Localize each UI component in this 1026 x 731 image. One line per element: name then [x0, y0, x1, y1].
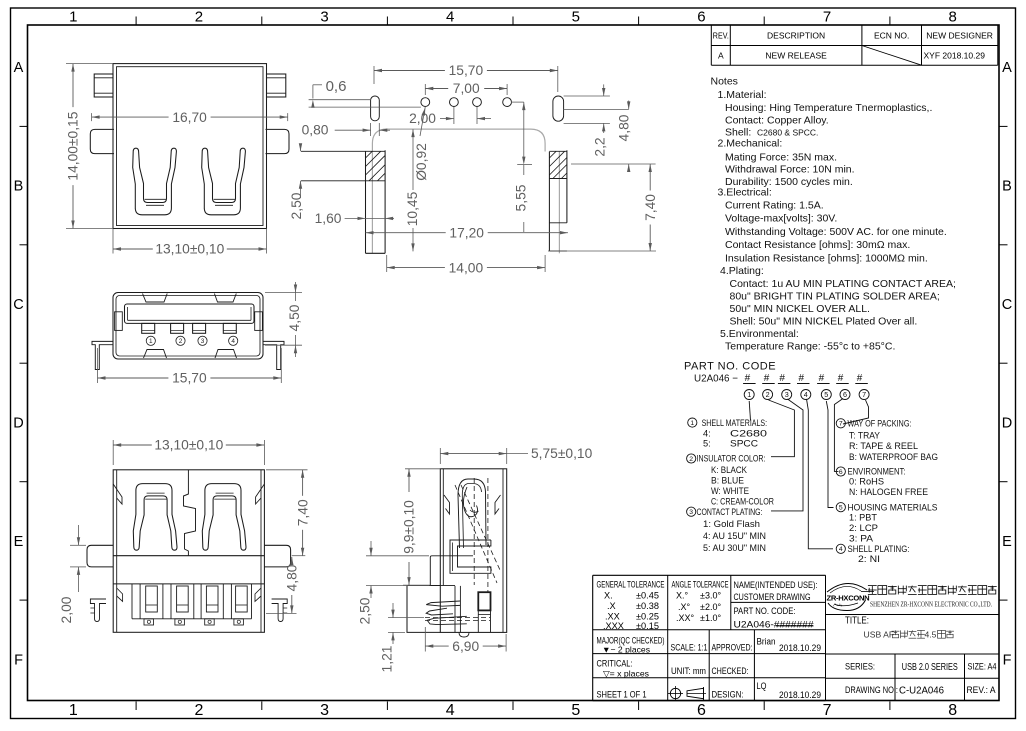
svg-text:±2.0°: ±2.0° — [700, 602, 721, 612]
view E body outline (gray) — [372, 129, 545, 143]
part code legend left column — [688, 418, 697, 427]
svg-text:USB AF: USB AF — [864, 630, 895, 640]
svg-text:D: D — [1002, 416, 1012, 432]
company title block — [825, 575, 827, 701]
dimension 4.80 (view E) — [628, 101, 630, 110]
dimension 7.40 (view C) — [266, 469, 308, 471]
svg-text:2: 2 — [689, 456, 693, 463]
svg-text:6: 6 — [843, 390, 847, 399]
svg-text:7,40: 7,40 — [295, 499, 310, 526]
svg-text:1,21: 1,21 — [380, 646, 395, 673]
svg-text:2: 2 — [179, 338, 183, 345]
svg-text:9,9±0,10: 9,9±0,10 — [402, 500, 417, 554]
svg-text:2018.10.29: 2018.10.29 — [779, 643, 821, 653]
view D body outline — [440, 469, 506, 633]
svg-text:2: NI: 2: NI — [858, 554, 880, 564]
svg-text:.XX°: .XX° — [676, 613, 695, 623]
svg-text:ENVIRONMENT:: ENVIRONMENT: — [848, 467, 906, 477]
dimension 6.90 — [424, 627, 426, 652]
svg-text:R: TAPE & REEL: R: TAPE & REEL — [849, 441, 918, 451]
svg-text:CONTACT PLATING:: CONTACT PLATING: — [697, 507, 763, 517]
svg-text:1.Material:: 1.Material: — [718, 89, 767, 101]
svg-text:±1.0°: ±1.0° — [700, 613, 721, 623]
svg-text:2,50: 2,50 — [358, 597, 373, 624]
svg-text:2: 2 — [195, 9, 203, 26]
dimension 2.50 (view D) — [366, 555, 429, 557]
svg-text:5: 5 — [824, 390, 828, 399]
svg-text:NAME(INTENDED USE):: NAME(INTENDED USE): — [734, 580, 818, 590]
view A lower-right tab (rounded) — [266, 129, 290, 153]
dimension 0.80 — [370, 123, 372, 136]
svg-text:1: 1 — [149, 338, 153, 345]
view B contacts 1-4 — [142, 323, 155, 333]
svg-text:3.Electrical:: 3.Electrical: — [718, 187, 772, 199]
svg-text:Temperature Range: -55°c to +8: Temperature Range: -55°c to +85°C. — [725, 341, 895, 353]
svg-text:.XXX: .XXX — [603, 621, 624, 631]
view C center divider profile — [184, 470, 196, 556]
svg-text:2018.10.29: 2018.10.29 — [779, 690, 821, 700]
view E left hatch lines — [366, 151, 386, 181]
svg-text:5: AU 30U" MIN: 5: AU 30U" MIN — [703, 543, 766, 553]
svg-text:E: E — [1002, 534, 1012, 550]
svg-text:K: BLACK: K: BLACK — [711, 465, 748, 475]
view C right tab — [264, 545, 290, 567]
svg-text:U2A046-#######: U2A046-####### — [734, 619, 815, 629]
svg-text:±0.15: ±0.15 — [636, 621, 659, 631]
svg-text:5,75±0,10: 5,75±0,10 — [531, 446, 593, 461]
svg-text:2,50: 2,50 — [289, 192, 304, 219]
svg-text:13,10±0,10: 13,10±0,10 — [155, 242, 224, 257]
view D spring contact — [458, 479, 486, 548]
view D retention clamp — [450, 540, 491, 573]
view C contact fork 1 (flipped) — [133, 484, 177, 551]
svg-text:1: 1 — [747, 390, 751, 399]
svg-text:SCALE: 1:1: SCALE: 1:1 — [671, 643, 708, 653]
row tick marks left/right — [20, 125, 28, 127]
svg-text:TITLE:: TITLE: — [845, 616, 869, 627]
svg-text:3: 3 — [785, 390, 789, 399]
view C lower hooks — [117, 588, 123, 601]
svg-text:ANGLE TOLERANCE: ANGLE TOLERANCE — [672, 580, 729, 590]
dimension 10.45 — [411, 129, 414, 137]
view B top notches — [143, 294, 168, 303]
svg-text:4.Plating:: 4.Plating: — [720, 265, 764, 277]
svg-text:INSULATOR COLOR:: INSULATOR COLOR: — [697, 454, 766, 464]
view B bottom notches — [144, 350, 167, 359]
view D lower-left block — [407, 586, 440, 633]
view D top hooks — [444, 495, 450, 514]
dimension 7.40 (view E) — [649, 164, 651, 191]
view B left leg — [92, 341, 113, 369]
view A upper-right mounting tab — [267, 74, 286, 97]
svg-text:7,40: 7,40 — [643, 194, 658, 221]
svg-text:5,55: 5,55 — [514, 184, 529, 211]
svg-text:±0.45: ±0.45 — [636, 590, 659, 600]
ZR-HXCONN logo — [827, 583, 867, 592]
view C contact fork 2 (flipped) — [202, 484, 246, 551]
svg-text:NEW DESIGNER: NEW DESIGNER — [926, 31, 993, 41]
svg-text:#: # — [838, 373, 844, 384]
view E right column + hatch — [548, 152, 550, 251]
svg-text:PART NO. CODE: PART NO. CODE — [684, 361, 776, 373]
svg-text:SHELL MATERIALS:: SHELL MATERIALS: — [702, 418, 768, 428]
svg-text:#: # — [857, 373, 863, 384]
view E slot holes (oval) — [371, 96, 380, 121]
svg-text:.XX: .XX — [605, 611, 620, 621]
svg-text:5: 5 — [572, 9, 580, 26]
svg-text:7: 7 — [823, 702, 832, 719]
svg-text:7: 7 — [839, 421, 843, 428]
svg-text:.X°: .X° — [678, 602, 691, 612]
svg-text:5:: 5: — [703, 438, 711, 448]
svg-text:LQ: LQ — [757, 681, 767, 691]
svg-text:Contact Resistance [ohms]: 30m: Contact Resistance [ohms]: 30mΩ max. — [725, 239, 910, 251]
dimension diameter 0.92 leader — [420, 107, 425, 137]
svg-text:3: 3 — [320, 702, 329, 719]
svg-text:1: 1 — [69, 702, 78, 719]
svg-text:4: AU 15U" MIN: 4: AU 15U" MIN — [703, 531, 766, 541]
svg-text:16,70: 16,70 — [172, 110, 207, 125]
svg-text:±0.38: ±0.38 — [636, 601, 659, 611]
view D pin section (bold) — [478, 592, 490, 610]
svg-text:Current Rating: 1.5A.: Current Rating: 1.5A. — [725, 200, 824, 212]
svg-text:0,80: 0,80 — [302, 123, 329, 138]
view A contact fork 2 — [202, 148, 246, 215]
svg-text:Mating Force: 35N max.: Mating Force: 35N max. — [725, 152, 837, 164]
view C left board lock — [90, 599, 106, 622]
svg-text:1: Gold Flash: 1: Gold Flash — [703, 519, 760, 529]
svg-text:#: # — [745, 373, 751, 384]
dimension 1.21 (view D) — [388, 617, 424, 619]
svg-text:‹°−°›: ‹°−°› — [833, 603, 843, 608]
svg-text:3: 3 — [201, 338, 205, 345]
view C right board lock — [272, 599, 288, 622]
svg-text:6: 6 — [839, 469, 843, 476]
svg-text:13,10±0,10: 13,10±0,10 — [154, 438, 223, 453]
svg-text:C: C — [1002, 297, 1012, 313]
dimension 2.2 — [603, 84, 605, 96]
svg-text:Ø0,92: Ø0,92 — [414, 143, 429, 181]
svg-text:PART NO. CODE:: PART NO. CODE: — [734, 606, 796, 616]
svg-text:2,2: 2,2 — [593, 137, 608, 156]
svg-text:F: F — [14, 652, 23, 668]
svg-text:2: LCP: 2: LCP — [849, 523, 878, 533]
company name (CJK strokes) — [868, 585, 877, 587]
dimension 4.80 (view C) — [266, 612, 297, 614]
dimension 14.00+-0.15 — [66, 63, 113, 65]
svg-text:5: 5 — [571, 702, 580, 719]
svg-text:80u" BRIGHT TIN PLATING SOLDER: 80u" BRIGHT TIN PLATING SOLDER AREA; — [730, 290, 940, 302]
svg-text:8: 8 — [949, 9, 957, 26]
svg-text:±0.25: ±0.25 — [636, 611, 659, 621]
tolerance table — [593, 574, 826, 576]
svg-text:CUSTOMER DRAWING: CUSTOMER DRAWING — [734, 592, 811, 602]
svg-text:4,80: 4,80 — [285, 564, 300, 591]
svg-text:2: 2 — [194, 702, 203, 719]
view B shell outline (rounded) — [113, 293, 263, 360]
svg-text:4,50: 4,50 — [287, 304, 302, 331]
svg-text:8: 8 — [948, 702, 957, 719]
svg-text:±3.0°: ±3.0° — [700, 590, 721, 600]
dimension 15.70 (view E) — [373, 66, 375, 84]
svg-text:6,90: 6,90 — [452, 639, 479, 654]
dimension 13.10+-0.10 — [112, 229, 114, 254]
svg-text:SPCC: SPCC — [730, 438, 758, 448]
view A lower-left tab (rounded) — [90, 129, 114, 153]
svg-text:X.°: X.° — [676, 590, 689, 600]
svg-text:C: C — [13, 297, 23, 313]
dimension 5.55 — [511, 101, 524, 103]
svg-text:N: HALOGEN FREE: N: HALOGEN FREE — [849, 487, 928, 497]
svg-text:Insulation Resistance [ohms]:: Insulation Resistance [ohms]: 1000MΩ min… — [725, 252, 928, 264]
svg-text:SERIES:: SERIES: — [845, 662, 875, 672]
svg-text:14,00±0,15: 14,00±0,15 — [66, 111, 81, 180]
svg-text:DESIGN:: DESIGN: — [712, 690, 744, 700]
svg-text:6: 6 — [697, 702, 706, 719]
view C pins — [146, 586, 158, 612]
view E pin holes — [421, 98, 430, 107]
revision table — [710, 25, 712, 65]
svg-text:0: RoHS: 0: RoHS — [849, 476, 884, 486]
svg-text:C2680: C2680 — [730, 428, 767, 438]
svg-text:2: 2 — [766, 390, 770, 399]
svg-text:4: 4 — [446, 9, 454, 26]
svg-text:#: # — [799, 373, 805, 384]
view A upper-left mounting tab — [94, 74, 113, 97]
dimension 4.50 (view B) — [265, 292, 302, 294]
svg-text:REV.: A: REV.: A — [967, 685, 997, 695]
svg-text:CHECKED:: CHECKED: — [712, 666, 749, 676]
svg-text:4.5: 4.5 — [925, 629, 937, 639]
view A front-view shell outline — [113, 64, 267, 229]
svg-text:1,60: 1,60 — [315, 211, 342, 226]
view D left step ledge — [430, 556, 440, 586]
svg-text:50u" MIN NICKEL OVER ALL.: 50u" MIN NICKEL OVER ALL. — [730, 303, 870, 315]
svg-text:4: 4 — [839, 546, 843, 553]
svg-text:B: B — [1002, 179, 1012, 195]
svg-text:XYF 2018.10.29: XYF 2018.10.29 — [924, 51, 986, 61]
svg-text:5.Environmental:: 5.Environmental: — [720, 328, 799, 340]
view D bottom foot bump — [459, 632, 469, 637]
svg-text:A: A — [718, 51, 724, 61]
svg-text:APPROVED:: APPROVED: — [712, 643, 753, 653]
svg-text:E: E — [14, 534, 24, 550]
svg-text:U2A046 −: U2A046 − — [694, 373, 738, 385]
svg-text:F: F — [1003, 652, 1012, 668]
svg-text:6: 6 — [697, 9, 705, 26]
svg-text:C: CREAM-COLOR: C: CREAM-COLOR — [711, 496, 774, 506]
svg-text:3: 3 — [689, 509, 693, 516]
svg-text:Brian: Brian — [757, 637, 776, 647]
view E right ext lines — [564, 95, 610, 97]
column tick marks top/bottom — [135, 17, 137, 26]
svg-text:B: B — [14, 179, 24, 195]
svg-text:C2680 & SPCC.: C2680 & SPCC. — [757, 128, 818, 138]
svg-text:1: 1 — [690, 420, 694, 427]
svg-text:5: 5 — [839, 505, 843, 512]
svg-text:CRITICAL:: CRITICAL: — [597, 659, 633, 669]
svg-text:Shell: 50u" MIN NICKEL Plated: Shell: 50u" MIN NICKEL Plated Over all. — [730, 315, 918, 327]
view D vertical guides — [454, 586, 456, 633]
view C left tab — [87, 545, 113, 567]
svg-text:WAY OF PACKING:: WAY OF PACKING: — [848, 419, 912, 429]
svg-text:HOUSING MATERIALS: HOUSING MATERIALS — [848, 502, 938, 512]
view C shell outline — [113, 470, 264, 633]
svg-text:SHEET 1 OF 1: SHEET 1 OF 1 — [597, 690, 647, 700]
svg-text:USB 2.0 SERIES: USB 2.0 SERIES — [902, 662, 958, 673]
svg-text:SHELL PLATING:: SHELL PLATING: — [848, 544, 910, 554]
svg-text:Withdrawal Force: 10N min.: Withdrawal Force: 10N min. — [725, 164, 855, 176]
svg-text:A: A — [14, 60, 24, 76]
svg-text:X.: X. — [604, 590, 613, 600]
svg-text:Contact: 1u AU MIN PLATING CON: Contact: 1u AU MIN PLATING CONTACT AREA; — [730, 278, 956, 290]
svg-text:REV.: REV. — [713, 32, 729, 41]
dimension 17.20 — [366, 232, 446, 234]
svg-text:▽= x places: ▽= x places — [603, 669, 649, 679]
svg-text:4: 4 — [446, 702, 455, 719]
svg-text:4:: 4: — [703, 428, 711, 438]
svg-text:10,45: 10,45 — [405, 191, 420, 226]
dimension 1.60 — [345, 217, 366, 219]
dimension 15.70 (view B) — [97, 348, 99, 383]
svg-text:Contact: Copper Alloy.: Contact: Copper Alloy. — [725, 115, 829, 127]
svg-text:4,80: 4,80 — [617, 114, 632, 141]
svg-text:D: D — [13, 416, 23, 432]
svg-text:15,70: 15,70 — [449, 63, 484, 78]
svg-text:4: 4 — [231, 338, 235, 345]
svg-text:0,6: 0,6 — [326, 78, 347, 95]
svg-text:A: A — [1002, 60, 1012, 76]
view A contact fork 1 — [133, 148, 177, 215]
dimension 13.10+-0.10 (view C) — [112, 440, 114, 465]
part code circled digits 1-7 — [744, 390, 754, 400]
svg-text:Notes: Notes — [711, 76, 738, 88]
view B right leg — [263, 341, 284, 369]
svg-text:SHENZHEN ZR-HXCONN ELECTRONI: SHENZHEN ZR-HXCONN ELECTRONIC CO.,LTD. — [870, 601, 992, 609]
ECN cell diagonal — [862, 46, 922, 66]
svg-text:▼− 2 places: ▼− 2 places — [602, 645, 650, 655]
svg-text:UNIT: mm: UNIT: mm — [671, 666, 706, 676]
svg-text:#: # — [779, 373, 785, 384]
dimension 2.00 (view E) — [453, 107, 455, 124]
svg-text:2.Mechanical:: 2.Mechanical: — [718, 138, 783, 150]
view D dashed pin lines — [425, 617, 490, 619]
svg-text:1: 1 — [69, 9, 77, 26]
svg-text:SIZE: A4: SIZE: A4 — [968, 662, 997, 672]
svg-text:ZR-HXCONN: ZR-HXCONN — [827, 594, 870, 603]
svg-text:14,00: 14,00 — [449, 260, 484, 275]
svg-text:2,00: 2,00 — [59, 596, 74, 623]
view B side clips — [115, 312, 123, 331]
view D hidden lines (dashed) — [473, 478, 475, 585]
view C horizontal band — [113, 555, 264, 557]
svg-text:4: 4 — [804, 390, 808, 399]
svg-text:3: 3 — [320, 9, 328, 26]
dimension 2.00 (view C) — [70, 544, 86, 546]
svg-text:W: WHITE: W: WHITE — [711, 486, 749, 496]
svg-text:T: TRAY: T: TRAY — [849, 431, 880, 441]
view C corner hooks — [113, 484, 122, 504]
svg-text:Withstanding Voltage: 500V AC.: Withstanding Voltage: 500V AC. for one m… — [725, 226, 947, 238]
svg-text:C-U2A046: C-U2A046 — [899, 686, 944, 697]
svg-text:#: # — [764, 373, 770, 384]
svg-text:17,20: 17,20 — [449, 225, 484, 240]
svg-text:15,70: 15,70 — [172, 371, 207, 386]
dimension 0.6 — [312, 85, 314, 99]
svg-text:B: WATERPROOF BAG: B: WATERPROOF BAG — [849, 452, 938, 462]
view D solder claw — [426, 601, 460, 606]
dimension 7.00 — [424, 84, 426, 95]
view B tongue — [125, 304, 255, 323]
svg-text:Housing: Hing Temperature Tne: Housing: Hing Temperature Tnermoplastics… — [725, 102, 932, 114]
svg-text:#: # — [819, 373, 825, 384]
svg-text:NEW RELEASE: NEW RELEASE — [765, 51, 827, 61]
svg-text:1: PBT: 1: PBT — [849, 513, 877, 523]
svg-text:7,00: 7,00 — [453, 81, 480, 96]
view C pin channels — [132, 618, 252, 620]
third angle projection symbol — [670, 688, 680, 698]
svg-text:7: 7 — [823, 9, 831, 26]
leader lines from circled digits — [749, 401, 750, 421]
svg-text:.X: .X — [607, 601, 616, 611]
svg-text:7: 7 — [862, 390, 866, 399]
svg-text:ECN NO.: ECN NO. — [874, 31, 909, 41]
dimension 5.75+-0.10 — [439, 448, 441, 464]
svg-text:DESCRIPTION: DESCRIPTION — [767, 31, 825, 41]
view E left column + hatch — [365, 151, 367, 253]
svg-text:3: PA: 3: PA — [849, 534, 874, 544]
dimension 14.00 — [386, 255, 388, 272]
dimension 16.70 — [91, 113, 93, 121]
svg-text:Voltage-max[volts]: 30V.: Voltage-max[volts]: 30V. — [725, 213, 837, 225]
svg-text:DRAWING NO.:: DRAWING NO.: — [845, 685, 898, 695]
svg-text:GENERAL TOLERANCE: GENERAL TOLERANCE — [597, 580, 665, 590]
dimension 2.50 (view E) — [300, 146, 302, 151]
svg-text:B: BLUE: B: BLUE — [711, 476, 744, 486]
dimension 9.9+-0.10 — [405, 468, 440, 470]
part code legend right column — [836, 419, 845, 428]
